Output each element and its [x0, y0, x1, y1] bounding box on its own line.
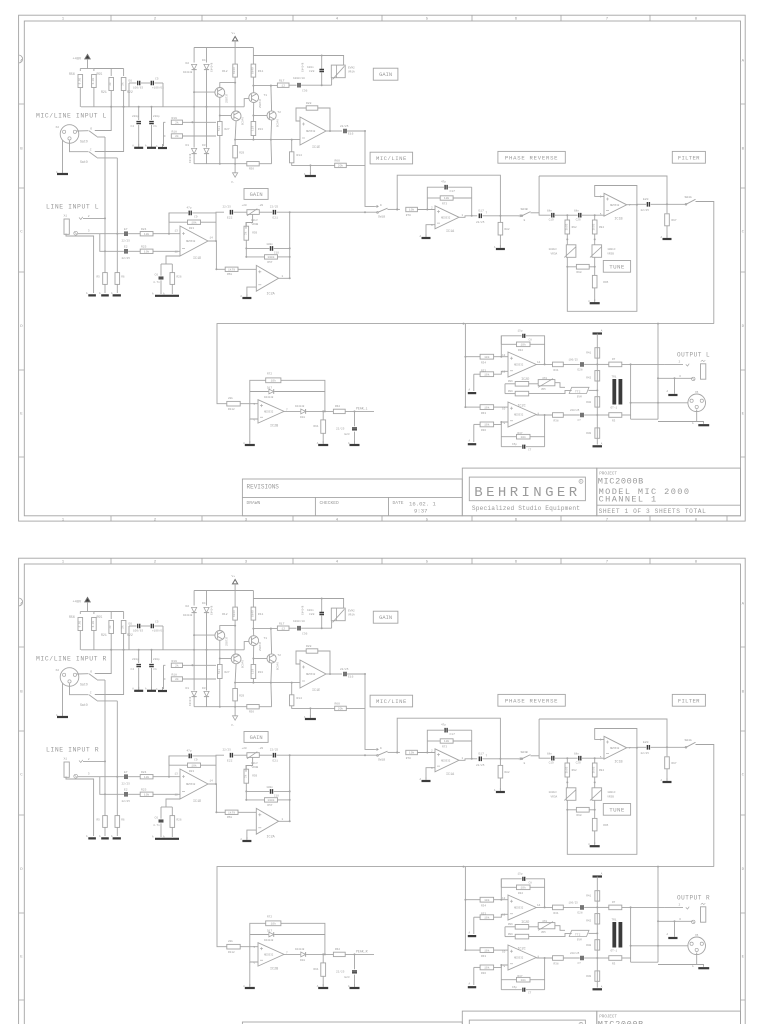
svg-text:100/25: 100/25	[569, 901, 579, 905]
svg-text:C9: C9	[194, 759, 198, 762]
op-amp IC1D	[180, 769, 208, 799]
svg-text:10k: 10k	[191, 220, 197, 224]
wire mic path down	[365, 131, 375, 206]
wire Q5 base	[220, 115, 231, 117]
svg-text:A: A	[86, 835, 88, 838]
svg-text:PEAK_L: PEAK_L	[356, 407, 368, 411]
svg-text:C36: C36	[302, 90, 308, 93]
svg-text:R57: R57	[267, 261, 272, 264]
svg-text:R97: R97	[672, 219, 677, 222]
ground IC1A	[425, 777, 427, 781]
wire T3 base	[194, 91, 215, 93]
svg-text:22/25: 22/25	[336, 970, 345, 974]
wire IC2A output	[279, 277, 290, 279]
wire bus to output amps	[464, 867, 466, 951]
op-amp IC1D	[180, 226, 208, 256]
svg-text:C1: C1	[153, 668, 157, 671]
V- supply arrow	[234, 164, 236, 173]
svg-text:R37: R37	[518, 975, 523, 978]
svg-text:511: 511	[218, 669, 221, 674]
svg-text:-20: -20	[258, 204, 263, 207]
svg-text:E17: E17	[479, 209, 485, 212]
ground R36	[473, 967, 475, 985]
phase reverse label box	[498, 694, 565, 706]
ground R33	[473, 374, 475, 391]
wire IC2D feedback	[501, 879, 521, 900]
wire preamp sense row	[235, 682, 300, 684]
svg-text:PHASE REVERSE: PHASE REVERSE	[505, 154, 558, 161]
svg-text:R19: R19	[172, 660, 178, 663]
wire XLR output bottom pin	[658, 953, 697, 965]
svg-text:2SB737: 2SB737	[259, 641, 262, 651]
svg-text:R22: R22	[127, 633, 133, 637]
svg-text:R94: R94	[599, 769, 604, 772]
op-amp IC2D	[508, 352, 536, 377]
svg-text:D18: D18	[300, 959, 305, 962]
gain pot VR1A EVM2	[331, 608, 345, 621]
resistor R95	[594, 267, 596, 276]
wire IC2B minus leg	[249, 419, 251, 443]
svg-text:+20: +20	[242, 204, 247, 207]
svg-text:R23: R23	[189, 770, 194, 773]
svg-text:C8: C8	[529, 339, 533, 342]
svg-text:C10: C10	[274, 794, 279, 797]
svg-text:A: A	[667, 933, 669, 936]
svg-text:R59: R59	[252, 774, 257, 777]
svg-text:E: E	[20, 413, 23, 417]
svg-text:100k: 100k	[267, 798, 274, 802]
net 8 arrow	[518, 758, 522, 760]
svg-text:IC1D: IC1D	[193, 800, 201, 804]
resistor R32	[501, 886, 516, 888]
op-amp IC2A	[256, 808, 278, 834]
svg-text:C28: C28	[309, 613, 315, 616]
svg-text:NE5532: NE5532	[264, 954, 274, 957]
svg-text:R5: R5	[97, 276, 101, 279]
svg-text:A: A	[420, 235, 422, 238]
svg-text:R98: R98	[577, 271, 582, 274]
svg-text:SatO: SatO	[80, 703, 88, 707]
svg-text:R63: R63	[481, 412, 486, 415]
jack ring contact	[74, 774, 78, 778]
wire main lower bus	[217, 324, 714, 404]
resistor R30	[595, 971, 600, 981]
svg-text:R24: R24	[141, 228, 147, 231]
svg-text:7: 7	[606, 518, 609, 522]
svg-text:R91: R91	[314, 968, 319, 971]
svg-text:R96: R96	[508, 923, 513, 926]
svg-text:C5: C5	[155, 78, 159, 81]
svg-text:A: A	[469, 931, 471, 934]
resistor R23	[169, 764, 188, 766]
wire IC2C output	[536, 414, 552, 416]
svg-text:C: C	[20, 231, 23, 235]
svg-text:X1: X1	[64, 214, 68, 217]
svg-text:R14: R14	[297, 697, 303, 700]
wire IC1D feedback up	[169, 213, 188, 234]
wire T1 emitter	[252, 629, 254, 636]
svg-text:R55: R55	[97, 72, 103, 76]
svg-text:MIC2000B: MIC2000B	[598, 477, 644, 487]
sheet inner border frame	[24, 21, 740, 516]
resistor R70 10k	[406, 207, 418, 211]
svg-text:1k78: 1k78	[228, 268, 235, 272]
wire IC1D output	[208, 755, 224, 784]
svg-text:C: C	[742, 774, 745, 778]
wire T1 emitter	[252, 86, 254, 93]
wire mic bus	[81, 106, 244, 108]
svg-text:VR1A: VR1A	[348, 70, 355, 73]
svg-text:20k: 20k	[338, 707, 344, 711]
wire Q5 emitter	[234, 626, 236, 654]
svg-text:R3: R3	[612, 420, 616, 423]
svg-text:E2: E2	[124, 789, 128, 792]
output trim resistor R96	[505, 926, 515, 928]
svg-text:4.7n: 4.7n	[153, 281, 160, 284]
resistor R31 4k75	[553, 362, 564, 367]
svg-text:TUNE: TUNE	[609, 263, 625, 270]
svg-text:R21: R21	[101, 90, 107, 94]
schematic sheet 2 (channel R)	[19, 558, 746, 1024]
svg-text:A: A	[667, 390, 669, 393]
wire T2 collector	[253, 86, 271, 111]
svg-text:220/25: 220/25	[570, 951, 580, 955]
svg-text:V-: V-	[231, 724, 235, 727]
resistor R30	[595, 428, 600, 438]
wire transformer secondary	[630, 907, 632, 962]
ground columns	[88, 837, 121, 839]
svg-text:R59: R59	[252, 231, 257, 234]
svg-text:TT2: TT2	[575, 933, 581, 936]
svg-text:68n: 68n	[547, 209, 552, 212]
svg-text:3: 3	[679, 918, 681, 921]
svg-text:OUTPUT L: OUTPUT L	[677, 352, 710, 359]
ground IC2A	[246, 294, 248, 298]
svg-text:C17: C17	[450, 190, 456, 193]
wire output right bus	[657, 867, 659, 963]
svg-text:R36: R36	[481, 429, 486, 432]
wire XLR output bottom pin	[658, 410, 697, 422]
svg-text:D3: D3	[202, 144, 206, 147]
wire IC1A top bus	[397, 175, 500, 216]
svg-text:E7: E7	[124, 771, 128, 774]
svg-text:SW3B: SW3B	[521, 208, 528, 211]
svg-text:D2: D2	[186, 62, 190, 65]
wire IC2B feedback	[250, 923, 266, 962]
svg-text:A: A	[152, 293, 154, 296]
svg-text:13: 13	[502, 897, 506, 900]
svg-text:R82: R82	[505, 771, 510, 774]
resistor R63	[465, 406, 480, 408]
svg-text:15p: 15p	[512, 443, 517, 446]
wire IC1B output	[627, 747, 637, 749]
svg-text:6k49: 6k49	[232, 67, 236, 74]
wire output column	[596, 877, 598, 988]
wire T3 collector	[219, 640, 221, 664]
svg-text:C: C	[742, 231, 745, 235]
resistor R6	[115, 273, 120, 285]
svg-text:20k: 20k	[228, 939, 233, 943]
svg-text:E28: E28	[578, 912, 583, 915]
wire filter output down	[696, 745, 714, 867]
svg-text:A: A	[742, 60, 745, 64]
svg-text:A: A	[99, 292, 101, 295]
sheet outer border frame	[19, 15, 746, 521]
svg-text:GAIN: GAIN	[379, 72, 392, 78]
svg-text:A: A	[240, 295, 242, 298]
wire IC2A right rail	[289, 212, 291, 278]
wire T3 collector	[219, 97, 221, 121]
project box	[597, 1011, 741, 1024]
svg-text:MIC2000B: MIC2000B	[598, 1020, 644, 1024]
svg-text:9: 9	[380, 747, 382, 750]
svg-text:R92: R92	[572, 769, 577, 772]
svg-text:R32: R32	[518, 892, 523, 895]
wire IC2D output	[536, 906, 552, 908]
svg-text:C: C	[90, 692, 92, 695]
svg-text:6k49: 6k49	[250, 67, 254, 74]
+48V supply symbol	[85, 598, 90, 602]
op-amp IC1E	[300, 117, 326, 145]
svg-text:22/25: 22/25	[641, 751, 650, 755]
svg-text:VR3A: VR3A	[551, 253, 558, 256]
svg-text:E16: E16	[348, 133, 354, 136]
resistor R38 4k75	[553, 956, 564, 961]
registered trademark symbol	[579, 479, 583, 483]
transistor T2 BC546	[267, 111, 276, 120]
svg-text:+48V: +48V	[73, 58, 82, 62]
svg-text:-20: -20	[258, 747, 263, 750]
wire preamp lower rail	[194, 163, 247, 165]
gain label box top	[373, 68, 398, 80]
svg-text:R30: R30	[586, 975, 591, 978]
svg-text:IC1B: IC1B	[614, 217, 622, 221]
svg-text:5: 5	[426, 518, 429, 522]
svg-text:NE5532: NE5532	[264, 411, 274, 414]
svg-text:14: 14	[210, 780, 214, 783]
svg-text:E6: E6	[129, 623, 133, 626]
wire mic pin3 column	[116, 158, 118, 273]
svg-text:6k49: 6k49	[232, 610, 236, 617]
svg-text:O: O	[90, 671, 92, 674]
op-amp IC2B	[258, 400, 284, 423]
svg-text:47p: 47p	[441, 724, 446, 727]
svg-text:GAIN: GAIN	[250, 192, 263, 198]
resistor R82	[499, 216, 501, 222]
svg-text:15p: 15p	[518, 873, 523, 876]
svg-text:C8: C8	[529, 882, 533, 885]
sheet inner border frame	[24, 564, 740, 1024]
svg-text:10k: 10k	[520, 978, 526, 982]
wire to transformer primary bottom	[597, 414, 609, 416]
resistor R98	[567, 257, 576, 267]
svg-text:C19: C19	[549, 219, 554, 222]
svg-text:C1: C1	[153, 125, 157, 128]
svg-text:T1: T1	[264, 637, 268, 640]
svg-text:E22: E22	[227, 760, 233, 763]
svg-text:R23: R23	[189, 227, 194, 230]
ground R97	[666, 235, 668, 239]
gain label box line stage	[244, 189, 268, 200]
wire T3 base	[194, 634, 215, 636]
inductor TT2	[569, 930, 589, 936]
svg-text:C?: C?	[578, 962, 582, 965]
transistor T3 2SB737	[215, 631, 225, 641]
wire transformer secondary	[630, 364, 632, 419]
svg-text:C10: C10	[274, 251, 279, 254]
svg-text:R92: R92	[572, 226, 577, 229]
svg-text:C5: C5	[155, 621, 159, 624]
svg-text:8: 8	[695, 518, 698, 522]
svg-text:OUTPUT R: OUTPUT R	[677, 895, 710, 902]
svg-text:D17: D17	[267, 929, 272, 932]
svg-text:R34: R34	[481, 904, 486, 907]
resistor R26	[171, 264, 173, 273]
wire T2 collector	[253, 629, 271, 654]
resistor R98	[567, 800, 576, 810]
svg-text:R70: R70	[406, 757, 411, 760]
svg-text:10k: 10k	[144, 232, 150, 236]
svg-text:14: 14	[210, 237, 214, 240]
svg-text:10k: 10k	[271, 379, 277, 383]
svg-text:12: 12	[175, 251, 179, 254]
svg-text:A: A	[145, 688, 147, 691]
svg-text:E: E	[742, 413, 745, 417]
wire IC2A plus leg	[247, 287, 256, 296]
jack ring contact	[74, 231, 78, 235]
svg-text:C9: C9	[194, 216, 198, 219]
svg-text:1N4148: 1N4148	[264, 396, 274, 399]
svg-text:EVM: EVM	[577, 939, 582, 942]
resistor R13	[251, 665, 256, 679]
wire mic pin3 switched	[97, 700, 117, 702]
wire SW1B to R70	[388, 751, 400, 753]
wire IC2D output	[536, 363, 552, 365]
resistor R29	[234, 140, 236, 146]
resistor R59	[245, 766, 247, 770]
svg-text:R28: R28	[306, 102, 312, 105]
svg-text:2k: 2k	[175, 664, 179, 668]
mic/line relay label box	[370, 695, 413, 707]
wire phantom supply	[87, 59, 89, 69]
grid row ticks left	[19, 647, 25, 1000]
svg-text:R34: R34	[481, 361, 486, 364]
svg-text:10k: 10k	[520, 435, 526, 439]
svg-text:SW4A: SW4A	[685, 196, 692, 199]
node mic bus junctions	[110, 106, 112, 108]
ground R19 R18	[162, 687, 164, 691]
wire phantom rail	[80, 68, 94, 70]
svg-text:R62: R62	[335, 948, 340, 951]
op-amp IC2D	[508, 895, 536, 920]
svg-text:1N4148: 1N4148	[183, 71, 193, 74]
ground IC2B	[249, 984, 251, 988]
svg-text:14: 14	[537, 904, 541, 907]
wire T3 emitter	[220, 83, 235, 88]
svg-text:10k: 10k	[520, 343, 526, 347]
resistor R31 4k75	[553, 905, 564, 910]
op-amp IC1A	[435, 206, 459, 229]
resistor R34	[465, 899, 480, 901]
svg-text:22/25: 22/25	[476, 763, 485, 767]
svg-text:10k: 10k	[444, 739, 450, 743]
wire TT2 to transformer	[589, 389, 598, 391]
output jack tip contact	[686, 907, 689, 909]
tune label box	[603, 804, 630, 816]
resistor R58	[216, 268, 225, 270]
ground IC1A	[425, 234, 427, 238]
behringer logo section box	[462, 1011, 597, 1024]
svg-text:A: A	[86, 292, 88, 295]
wire preamp lower rail	[194, 706, 247, 708]
svg-text:22/25: 22/25	[336, 427, 345, 431]
svg-text:CHANNEL 1: CHANNEL 1	[599, 495, 658, 505]
svg-text:100kC: 100kC	[549, 247, 558, 251]
wire IC1E output	[326, 673, 342, 675]
ground C6 R26	[155, 838, 179, 840]
svg-text:X2: X2	[56, 669, 60, 672]
svg-text:3k93: 3k93	[564, 223, 568, 230]
svg-text:SW1B: SW1B	[378, 759, 385, 762]
resistor R40	[595, 397, 600, 407]
svg-text:15p: 15p	[512, 986, 517, 989]
svg-text:C7: C7	[528, 991, 532, 994]
wire IC1A output	[459, 216, 477, 218]
svg-text:10k: 10k	[484, 966, 490, 970]
svg-text:R17: R17	[279, 622, 285, 625]
svg-text:D: D	[20, 325, 23, 329]
svg-text:R72: R72	[267, 372, 272, 375]
ground R95	[594, 842, 596, 846]
binder notch left edge	[19, 55, 23, 63]
wire Q5 collector	[235, 664, 236, 683]
svg-text:10k: 10k	[484, 948, 490, 952]
svg-text:NE5532: NE5532	[306, 673, 316, 676]
svg-text:CHECKED: CHECKED	[320, 500, 340, 506]
svg-text:NE5532: NE5532	[610, 204, 620, 207]
svg-text:X1: X1	[64, 757, 68, 760]
svg-text:A: A	[601, 330, 603, 333]
wire top supply bus	[194, 47, 253, 49]
wire SW1B to R70	[388, 208, 400, 210]
svg-text:22/25: 22/25	[270, 204, 279, 208]
svg-text:SHEET 1 OF 3 SHEETS TOTAL: SHEET 1 OF 3 SHEETS TOTAL	[599, 508, 707, 515]
schematic sheet 1 (channel L)	[19, 15, 746, 522]
wire T1 base	[244, 99, 249, 107]
svg-text:TR1: TR1	[612, 375, 617, 378]
svg-text:R32: R32	[518, 349, 523, 352]
svg-text:R70: R70	[406, 214, 411, 217]
svg-text:E20: E20	[643, 741, 649, 744]
svg-text:NE5532: NE5532	[514, 414, 524, 417]
wire IC2B output	[284, 410, 300, 412]
svg-text:2: 2	[679, 360, 681, 363]
transistor T2 BC546	[267, 654, 276, 663]
wire IC2B output	[284, 953, 300, 955]
inductor TT2	[569, 387, 589, 393]
svg-text:R63: R63	[481, 955, 486, 958]
wire IC2D feedback	[501, 336, 521, 357]
svg-text:D: D	[742, 325, 745, 329]
svg-text:511: 511	[218, 126, 221, 131]
wire mic pin3 switched	[97, 157, 117, 159]
svg-text:3k93: 3k93	[592, 223, 596, 230]
resistor R91	[322, 954, 324, 963]
svg-text:R17: R17	[279, 79, 285, 82]
ground output jack	[674, 378, 676, 394]
svg-text:2SB737: 2SB737	[226, 636, 229, 646]
resistor R63	[465, 949, 480, 951]
